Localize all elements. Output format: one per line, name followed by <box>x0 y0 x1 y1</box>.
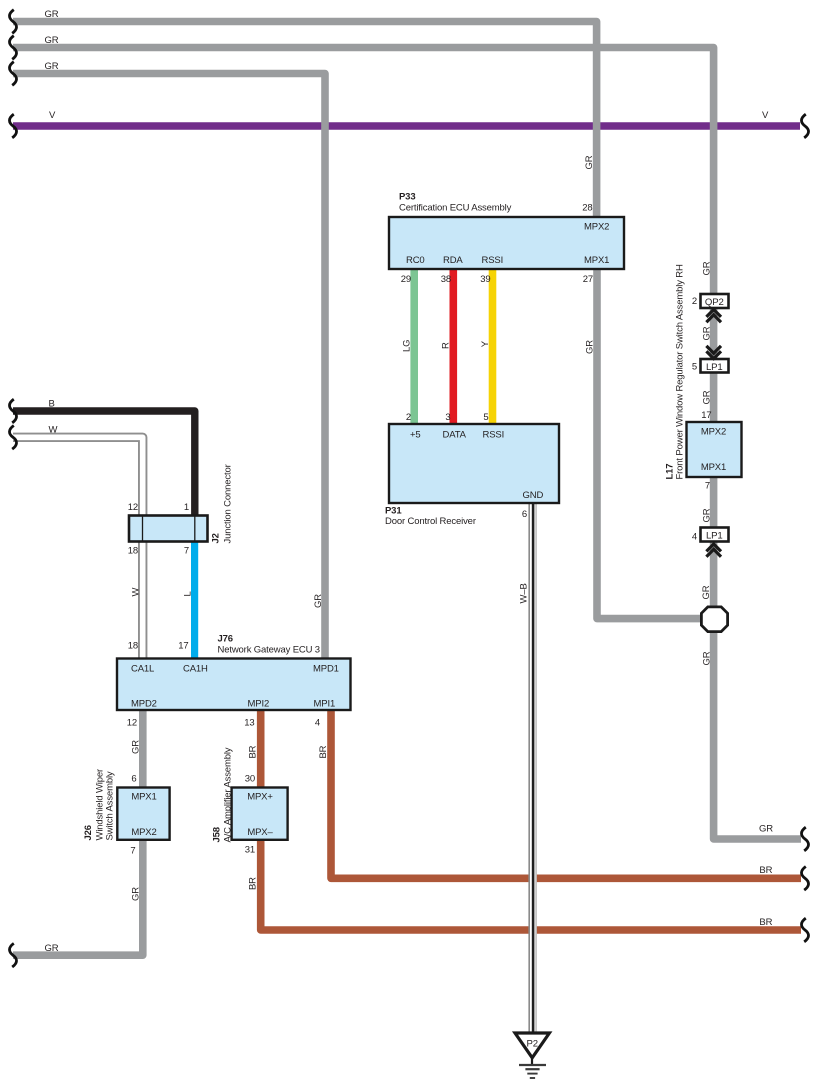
svg-text:GR: GR <box>45 35 59 46</box>
svg-text:CA1L: CA1L <box>131 664 154 675</box>
svg-text:GR: GR <box>702 326 713 340</box>
svg-text:P33: P33 <box>399 192 415 203</box>
svg-text:2: 2 <box>692 296 697 307</box>
svg-text:27: 27 <box>583 274 593 285</box>
svg-text:7: 7 <box>705 481 710 492</box>
svg-text:RDA: RDA <box>443 255 463 266</box>
label GR rotated on GR1 vertical <box>584 155 595 169</box>
wire W-B from P31 GND pin 6 to ground P2 <box>529 502 536 1033</box>
svg-text:12: 12 <box>128 502 138 513</box>
wire L blue from J2 pin 7 to J76 CA1H pin 17 <box>191 541 198 659</box>
connector box J58 A/C Amplifier Assembly <box>232 788 288 840</box>
svg-text:GR: GR <box>702 508 713 522</box>
svg-text:GR: GR <box>702 651 713 665</box>
svg-text:GR: GR <box>313 594 324 608</box>
wire-end squiggle W left <box>9 426 16 450</box>
connector box J76 Network Gateway ECU 3 <box>117 659 351 711</box>
svg-text:GR: GR <box>701 585 712 599</box>
svg-text:MPI1: MPI1 <box>314 699 336 710</box>
connector box P31 Door Control Receiver <box>389 424 559 503</box>
svg-text:W–B: W–B <box>519 583 530 603</box>
svg-text:RSSI: RSSI <box>483 430 505 441</box>
svg-text:3: 3 <box>445 412 450 423</box>
label GR rotated above J76 MPD1 <box>313 594 324 608</box>
in-line connector QP2 <box>701 294 729 308</box>
chevron pair up below QP2 <box>706 310 721 323</box>
svg-text:W: W <box>49 425 58 436</box>
wire GR2 to QP2/L17 chain down to right squiggle <box>13 48 801 840</box>
svg-text:DATA: DATA <box>443 430 467 441</box>
svg-text:J2: J2 <box>211 533 222 543</box>
wire GR1 top to P33 pin 28 <box>13 22 597 219</box>
svg-text:39: 39 <box>480 274 490 285</box>
svg-text:GR: GR <box>702 390 713 404</box>
svg-text:R: R <box>441 342 452 349</box>
wire-end squiggle V right <box>801 114 808 138</box>
wire-end squiggle B left <box>9 399 16 423</box>
label Y rotated <box>480 340 491 347</box>
label BR rotated MPI1 wire <box>318 745 329 758</box>
label GR rotated (P33 27 wire) <box>585 340 596 354</box>
svg-text:BR: BR <box>318 745 329 758</box>
svg-text:BR: BR <box>759 917 772 928</box>
chevron pair down above LP1 pin 5 <box>706 346 721 359</box>
wire BR from J76 MPI2 through J58 to right squiggle <box>261 709 801 930</box>
svg-text:MPX1: MPX1 <box>131 792 156 803</box>
svg-text:Switch Assembly: Switch Assembly <box>105 771 116 840</box>
svg-text:4: 4 <box>315 718 320 729</box>
svg-text:Certification ECU Assembly: Certification ECU Assembly <box>399 203 512 214</box>
wire B black to J2 pin 1 <box>13 411 195 516</box>
svg-text:LP1: LP1 <box>706 362 723 373</box>
svg-text:MPD2: MPD2 <box>131 699 157 710</box>
svg-text:29: 29 <box>401 274 411 285</box>
wire-end squiggle GR3 left <box>9 62 16 86</box>
svg-text:2: 2 <box>406 412 411 423</box>
label W rotated <box>131 588 142 597</box>
svg-text:6: 6 <box>522 509 527 520</box>
svg-text:BR: BR <box>759 865 772 876</box>
chevron pair up below LP1 pin 4 <box>706 544 721 557</box>
svg-text:GR: GR <box>584 155 595 169</box>
svg-text:GR: GR <box>759 824 773 835</box>
wire W white to J2 pin 12 <box>13 437 143 516</box>
svg-text:LG: LG <box>402 340 413 352</box>
svg-text:BR: BR <box>248 745 259 758</box>
svg-text:GND: GND <box>523 490 544 501</box>
svg-text:18: 18 <box>128 641 138 652</box>
wire-end squiggle GR right <box>801 827 808 851</box>
svg-text:LP1: LP1 <box>706 531 723 542</box>
svg-text:MPX1: MPX1 <box>701 462 726 473</box>
label LG rotated <box>402 340 413 352</box>
svg-text:Door Control Receiver: Door Control Receiver <box>385 516 476 527</box>
svg-text:GR: GR <box>702 261 713 275</box>
connector box L17 Front Power Window Regulator Switch Assembly RH <box>687 422 742 477</box>
svg-text:B: B <box>49 399 55 410</box>
junction connector J2 <box>129 516 208 542</box>
svg-text:4: 4 <box>692 532 697 543</box>
svg-text:QP2: QP2 <box>705 297 724 308</box>
label GR rotated between chevrons <box>702 326 713 340</box>
svg-text:+5: +5 <box>410 430 421 441</box>
svg-text:Network Gateway ECU 3: Network Gateway ECU 3 <box>218 645 320 656</box>
wire V violet horizontal <box>13 122 800 130</box>
label R rotated <box>441 342 452 349</box>
connector box J26 Windshield Wiper Switch Assembly <box>117 788 169 840</box>
label GR rotated below J26 <box>131 887 142 901</box>
wire GR from J76 MPD2 through J26 to bottom-left squiggle <box>13 709 143 955</box>
svg-text:J76: J76 <box>218 634 233 645</box>
svg-text:31: 31 <box>245 845 255 856</box>
svg-text:BR: BR <box>248 877 259 890</box>
svg-text:P31: P31 <box>385 506 402 517</box>
wire LG from P33 pin 29 to P31 pin 2 <box>410 268 418 425</box>
wire GR from P33 MPX1 pin 27 to splice octagon <box>597 268 705 619</box>
svg-text:GR: GR <box>131 740 142 754</box>
svg-text:MPX1: MPX1 <box>584 255 609 266</box>
svg-text:18: 18 <box>128 546 138 557</box>
wire-end squiggle V left <box>9 114 16 138</box>
svg-text:RSSI: RSSI <box>482 255 504 266</box>
label GR rotated below octagon <box>702 651 713 665</box>
svg-text:28: 28 <box>582 203 592 214</box>
svg-text:12: 12 <box>127 718 137 729</box>
ground symbol P2 <box>515 1033 549 1078</box>
label J2 rotated <box>211 533 222 543</box>
svg-text:V: V <box>49 110 56 121</box>
svg-text:MPX+: MPX+ <box>247 792 273 803</box>
label L rotated <box>183 591 194 596</box>
in-line connector LP1 pin 4 <box>701 528 729 542</box>
wire R red from P33 pin 38 to P31 pin 3 <box>449 268 457 425</box>
svg-text:MPX2: MPX2 <box>584 221 609 232</box>
svg-text:MPX–: MPX– <box>247 827 273 838</box>
wire W from J2 pin 18 to J76 CA1L pin 18 <box>138 541 147 659</box>
svg-text:Junction Connector: Junction Connector <box>223 464 234 543</box>
svg-text:Front Power Window Regulator S: Front Power Window Regulator Switch Asse… <box>675 264 686 480</box>
svg-text:7: 7 <box>184 546 189 557</box>
label GR rotated above LP1 pin4 <box>702 508 713 522</box>
svg-text:GR: GR <box>45 9 59 20</box>
wire-end squiggle GR bottom left <box>9 943 16 967</box>
label J58 rotated <box>212 827 223 842</box>
svg-text:GR: GR <box>585 340 596 354</box>
label J26 rotated <box>83 825 94 840</box>
svg-text:L: L <box>183 591 194 596</box>
wire-end squiggle BR2 right <box>801 918 808 942</box>
svg-text:5: 5 <box>483 412 488 423</box>
svg-text:1: 1 <box>184 502 189 513</box>
wire-end squiggle GR1 left <box>9 10 16 34</box>
svg-text:RC0: RC0 <box>406 255 425 266</box>
svg-text:V: V <box>762 110 769 121</box>
svg-text:MPD1: MPD1 <box>313 664 339 675</box>
label GR rotated above octagon <box>701 585 712 599</box>
svg-text:MPX2: MPX2 <box>701 427 726 438</box>
wire Y yellow from P33 pin 39 to P31 pin 5 <box>489 268 497 425</box>
svg-text:30: 30 <box>245 774 255 785</box>
svg-text:GR: GR <box>45 61 59 72</box>
svg-text:13: 13 <box>244 718 254 729</box>
label W-B rotated <box>519 583 530 603</box>
svg-text:J58: J58 <box>212 827 223 842</box>
svg-text:P2: P2 <box>526 1039 537 1050</box>
svg-text:GR: GR <box>45 943 59 954</box>
svg-text:7: 7 <box>130 846 135 857</box>
svg-text:5: 5 <box>692 362 697 373</box>
label GR rotated above QP2 <box>702 261 713 275</box>
svg-text:GR: GR <box>131 887 142 901</box>
label BR rotated below J58 <box>248 877 259 890</box>
splice octagon node <box>701 607 727 632</box>
svg-text:17: 17 <box>701 410 711 421</box>
label GR rotated above J26 <box>131 740 142 754</box>
svg-text:J26: J26 <box>83 825 94 840</box>
in-line connector LP1 pin 5 <box>701 359 729 373</box>
svg-text:MPX2: MPX2 <box>131 827 156 838</box>
svg-text:Y: Y <box>480 340 491 347</box>
svg-text:17: 17 <box>178 641 188 652</box>
svg-text:6: 6 <box>131 774 136 785</box>
label BR rotated above J58 <box>248 745 259 758</box>
wire GR3 to J76 MPD1 <box>13 74 325 660</box>
label GR rotated above L17 <box>702 390 713 404</box>
wire-end squiggle GR2 left <box>9 36 16 60</box>
svg-text:CA1H: CA1H <box>183 664 208 675</box>
svg-text:MPI2: MPI2 <box>248 699 270 710</box>
svg-text:A/C Amplifier Assembly: A/C Amplifier Assembly <box>223 747 234 842</box>
svg-text:38: 38 <box>441 274 451 285</box>
svg-text:W: W <box>131 588 142 597</box>
connector box P33 Certification ECU Assembly <box>389 217 624 269</box>
wire BR from J76 MPI1 to right squiggle <box>331 709 801 878</box>
label L17 rotated <box>665 464 676 480</box>
wire-end squiggle BR1 right <box>801 867 808 891</box>
